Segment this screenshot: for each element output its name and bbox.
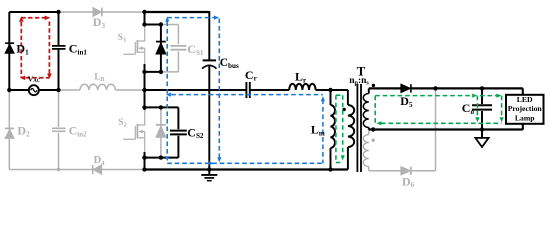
svg-text:Cin2: Cin2 xyxy=(69,124,88,139)
svg-text:D5: D5 xyxy=(400,94,413,109)
svg-text:Cin1: Cin1 xyxy=(69,41,88,56)
svg-text:Co: Co xyxy=(462,101,475,116)
svg-text:np:ns: np:ns xyxy=(349,76,369,87)
svg-text:CS1: CS1 xyxy=(187,42,204,57)
svg-text:D1: D1 xyxy=(16,41,29,56)
svg-text:D4: D4 xyxy=(94,155,106,167)
svg-text:S2: S2 xyxy=(118,118,126,129)
svg-text:Lr: Lr xyxy=(295,70,306,85)
svg-text:Cbus: Cbus xyxy=(220,57,239,70)
svg-text:Cr: Cr xyxy=(245,68,257,83)
svg-text:D6: D6 xyxy=(402,174,415,189)
svg-text:CS2: CS2 xyxy=(187,125,204,140)
svg-text:D3: D3 xyxy=(93,15,106,30)
svg-text:S1: S1 xyxy=(118,33,126,44)
svg-text:Lamp: Lamp xyxy=(515,114,535,123)
svg-text:LB: LB xyxy=(94,71,104,83)
svg-text:VAC: VAC xyxy=(28,74,41,84)
svg-text:D2: D2 xyxy=(17,124,30,139)
svg-text:Projection: Projection xyxy=(508,104,543,113)
svg-text:LED: LED xyxy=(517,95,533,104)
